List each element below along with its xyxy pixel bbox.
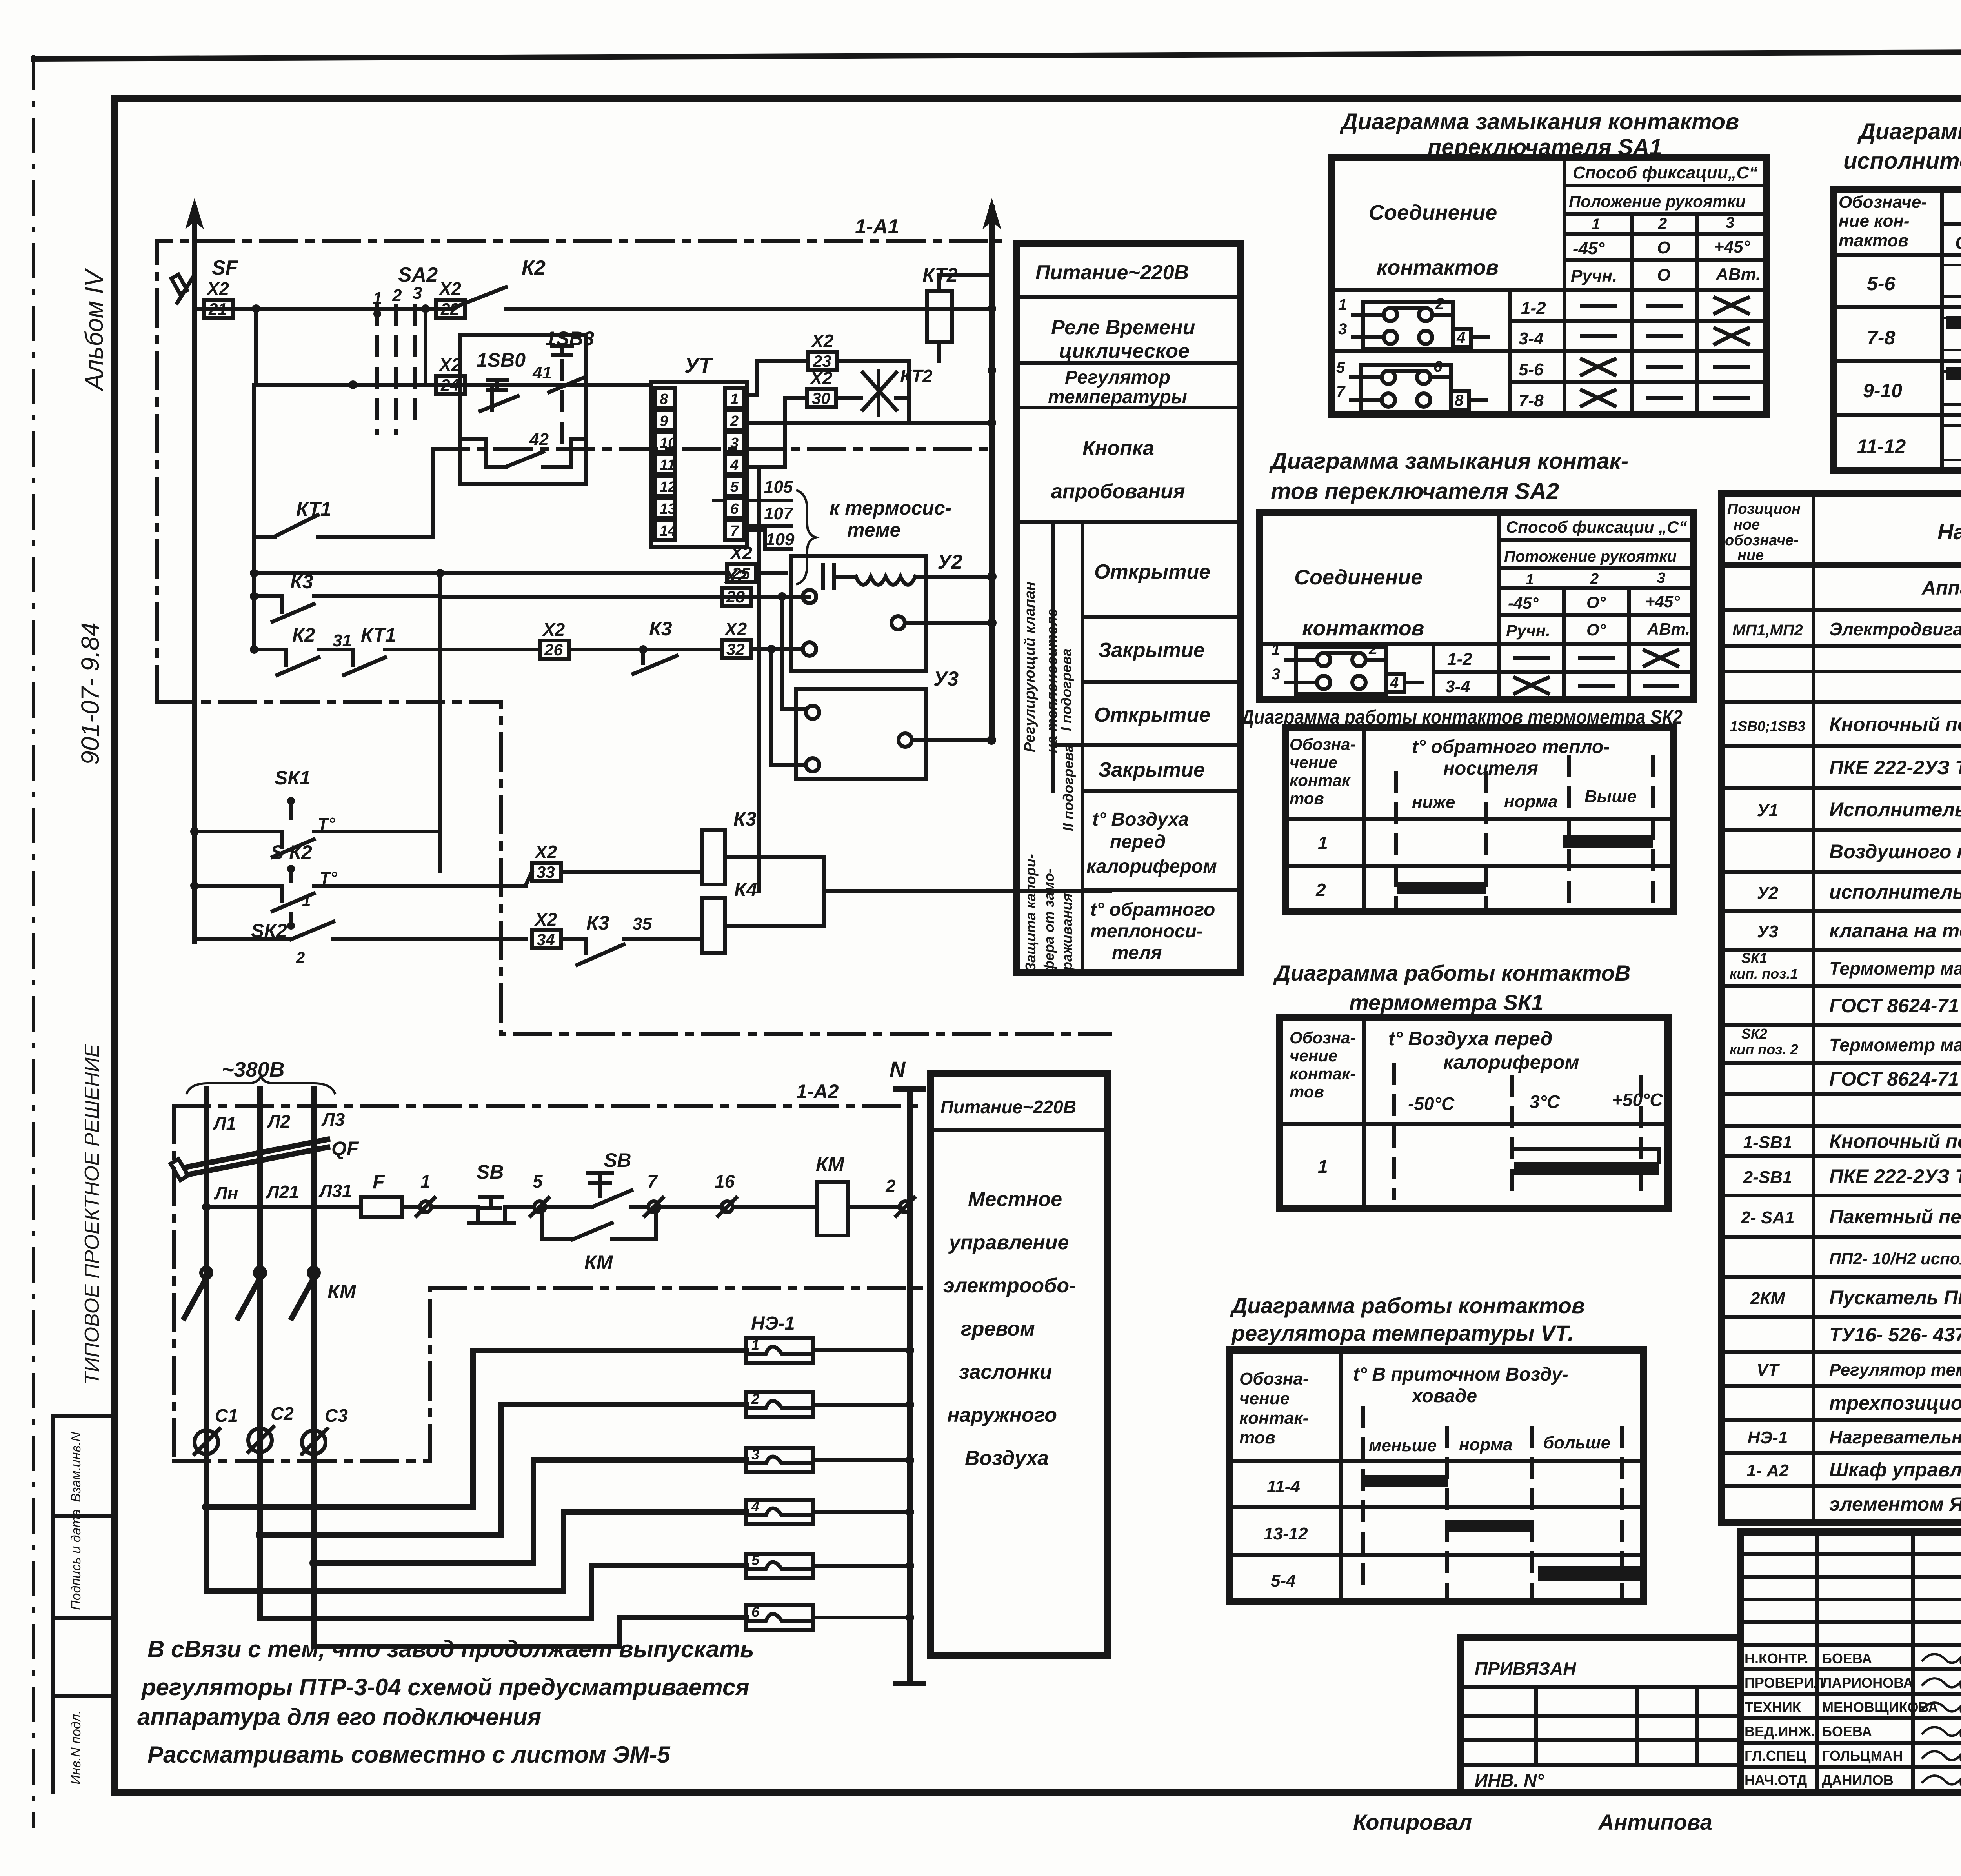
- svg-text:~380В: ~380В: [222, 1058, 285, 1081]
- svg-text:теля: теля: [1112, 943, 1162, 963]
- svg-text:ИНВ. N°: ИНВ. N°: [1475, 1770, 1544, 1790]
- svg-text:ПКЕ 222-2УЗ ТУ16-526.217-7: ПКЕ 222-2УЗ ТУ16-526.217-78: [1829, 757, 1961, 779]
- svg-text:Положение рукоятки: Положение рукоятки: [1569, 192, 1746, 211]
- svg-text:Шкаф управления нагревательн: Шкаф управления нагревательным: [1829, 1459, 1961, 1481]
- svg-text:1: 1: [730, 391, 739, 408]
- sheet edge dash-dot left: [32, 55, 35, 1828]
- svg-text:Инв.N подл.: Инв.N подл.: [69, 1710, 84, 1785]
- svg-text:раживания: раживания: [1059, 893, 1075, 971]
- terminal X2:24: [436, 355, 465, 394]
- svg-text:24: 24: [440, 376, 459, 394]
- svg-text:33: 33: [537, 863, 555, 881]
- heater element 1: [746, 1337, 914, 1363]
- title SK1 diagram: [1273, 961, 1630, 1015]
- svg-text:2: 2: [885, 1176, 896, 1196]
- svg-text:Копировал: Копировал: [1353, 1810, 1472, 1834]
- wire X2:23 right: [837, 361, 909, 423]
- svg-text:3: 3: [1657, 570, 1665, 586]
- svg-text:трехпозиционный тм-8: трехпозиционный тм-8: [1829, 1392, 1961, 1414]
- table cabinet rotated labels: [1022, 582, 1076, 973]
- wire heater feed 6: [314, 1618, 746, 1647]
- svg-text:2- SА1: 2- SА1: [1741, 1208, 1795, 1227]
- svg-text:1- А2: 1- А2: [1746, 1461, 1789, 1480]
- bars SK2: [1397, 835, 1653, 894]
- svg-text:КМ: КМ: [816, 1153, 845, 1175]
- svg-text:У1: У1: [1757, 801, 1778, 820]
- contact KT2 arrow: [836, 366, 933, 415]
- svg-text:К2: К2: [522, 257, 546, 279]
- wire drop X2:22: [424, 309, 427, 385]
- svg-text:Аппаратура по месту: Аппаратура по месту: [1921, 577, 1961, 599]
- svg-text:исполнительного механизма У1: исполнительного механизма У1: [1843, 148, 1961, 174]
- svg-text:КМ: КМ: [327, 1281, 357, 1303]
- svg-text:42: 42: [529, 430, 549, 449]
- svg-text:Термометр манометрический ТПГ: Термометр манометрический ТПГ- СК: [1829, 1035, 1961, 1055]
- svg-text:QF: QF: [331, 1137, 359, 1159]
- svg-text:t° В приточном Возду-: t° В приточном Возду-: [1353, 1364, 1568, 1385]
- svg-text:клапана на теплоносителе: клапана на теплоносителе: [1829, 920, 1961, 942]
- svg-text:32: 32: [726, 640, 745, 659]
- svg-text:контак-: контак-: [1290, 1064, 1355, 1083]
- svg-text:ГОСТ 8624-71: ГОСТ 8624-71: [1829, 1068, 1959, 1090]
- fuse F: [360, 1171, 418, 1217]
- svg-text:контактов: контактов: [1302, 617, 1424, 640]
- svg-text:9-10: 9-10: [1863, 380, 1902, 402]
- svg-text:больше: больше: [1543, 1433, 1610, 1452]
- relay coil KT2: [922, 264, 996, 361]
- svg-text:Питание~220В: Питание~220В: [1035, 261, 1189, 284]
- svg-text:К3: К3: [733, 808, 757, 830]
- svg-text:температуры: температуры: [1048, 387, 1187, 408]
- svg-text:11-4: 11-4: [1267, 1477, 1300, 1496]
- svg-text:5-6: 5-6: [1519, 360, 1544, 379]
- title SA1 diagram: [1339, 109, 1739, 160]
- svg-text:13: 13: [660, 501, 676, 517]
- svg-text:2: 2: [1658, 215, 1667, 232]
- svg-text:4: 4: [751, 1498, 759, 1514]
- parts row U3: [1757, 920, 1961, 942]
- switch SA2 dashed stems: [373, 264, 438, 433]
- table SK2 texts: [1290, 735, 1637, 900]
- svg-text:F: F: [373, 1171, 385, 1193]
- svg-text:Х2: Х2: [542, 619, 565, 640]
- element C3: [302, 1405, 348, 1454]
- coil KM: [816, 1153, 898, 1236]
- parts row SK2: [1730, 1026, 1798, 1057]
- svg-text:БОЕВА: БОЕВА: [1822, 1723, 1872, 1740]
- phase L1: [206, 1089, 238, 1591]
- svg-text:Лн: Лн: [214, 1183, 238, 1203]
- svg-text:К4: К4: [734, 879, 757, 901]
- svg-text:чение: чение: [1239, 1389, 1290, 1408]
- svg-text:1-А1: 1-А1: [855, 215, 899, 238]
- svg-text:тов: тов: [1239, 1428, 1275, 1447]
- wire X2:32 to U3: [751, 645, 803, 653]
- parts row U1: [1757, 799, 1961, 821]
- svg-text:4: 4: [1456, 329, 1465, 346]
- wire risers right of coils: [824, 857, 1110, 926]
- heater element 4: [746, 1498, 914, 1524]
- svg-text:1: 1: [1592, 216, 1600, 233]
- svg-text:3: 3: [1338, 320, 1347, 338]
- contact K2: [451, 257, 546, 309]
- svg-text:107: 107: [764, 504, 794, 523]
- svg-text:Альбом IV: Альбом IV: [80, 268, 108, 392]
- svg-text:1-2: 1-2: [1447, 650, 1472, 669]
- connector SA2: [1272, 640, 1422, 694]
- relay coil K4: [702, 879, 824, 953]
- pin 1: [725, 388, 744, 408]
- svg-text:контактов: контактов: [1377, 256, 1499, 279]
- note text: [137, 1636, 754, 1768]
- svg-text:электрообо-: электрообо-: [943, 1274, 1076, 1297]
- wire 109: [744, 530, 795, 549]
- svg-text:Нагревательный элемент N=1,6: Нагревательный элемент N=1,6 кВт: [1829, 1427, 1961, 1447]
- svg-text:SК1: SК1: [1741, 950, 1767, 966]
- contact K3 second: [633, 618, 720, 674]
- svg-text:SК2: SК2: [1741, 1026, 1767, 1042]
- svg-text:Х2: Х2: [724, 619, 747, 639]
- terminal X2:22: [436, 278, 465, 318]
- svg-text:ГЛ.СПЕЦ: ГЛ.СПЕЦ: [1745, 1748, 1806, 1764]
- button 1SB0 contact: [480, 380, 518, 411]
- svg-text:2: 2: [392, 286, 402, 305]
- svg-text:1: 1: [1272, 641, 1280, 659]
- relay coil K3: [702, 808, 824, 884]
- svg-text:S К2: S К2: [271, 841, 312, 863]
- svg-text:1: 1: [420, 1171, 431, 1192]
- svg-text:Л1: Л1: [213, 1113, 236, 1134]
- svg-text:калорифером: калорифером: [1086, 856, 1217, 877]
- table SK1 texts: [1290, 1028, 1663, 1177]
- svg-text:ТУ16- 526- 437-78: ТУ16- 526- 437-78: [1829, 1324, 1961, 1346]
- svg-text:1SВ0;1SВ3: 1SВ0;1SВ3: [1730, 718, 1805, 734]
- svg-text:7: 7: [1336, 383, 1346, 400]
- svg-text:чение: чение: [1290, 753, 1337, 772]
- wire vertical 1936: [747, 467, 759, 891]
- svg-text:Местное: Местное: [968, 1188, 1062, 1211]
- svg-text:Соединение: Соединение: [1294, 566, 1423, 589]
- parts row element YaU: [1829, 1493, 1961, 1515]
- svg-text:2-SВ1: 2-SВ1: [1743, 1168, 1792, 1187]
- svg-text:Регулирующий клапан: Регулирующий клапан: [1022, 582, 1038, 752]
- terminal X2:33: [532, 842, 561, 881]
- svg-text:7-8: 7-8: [1867, 327, 1895, 349]
- svg-text:Пакетный переключатель: Пакетный переключатель: [1829, 1206, 1961, 1228]
- svg-text:апробования: апробования: [1051, 480, 1185, 503]
- table U1 diagram: [1834, 189, 1961, 470]
- margin text Album IV: [80, 268, 108, 392]
- marks SA2: [1515, 650, 1677, 693]
- svg-text:Кнопочный пост управления: Кнопочный пост управления: [1829, 713, 1961, 735]
- table SA1 diagram: [1332, 158, 1766, 414]
- wire control row: [202, 1203, 360, 1211]
- contact KT1: [254, 449, 433, 537]
- svg-text:Открытие: Открытие: [1094, 704, 1210, 726]
- svg-text:тактов: тактов: [1839, 231, 1908, 250]
- svg-text:О: О: [1657, 238, 1670, 257]
- svg-text:13-12: 13-12: [1264, 1524, 1308, 1543]
- svg-text:N: N: [890, 1057, 906, 1081]
- contact KM L2: [238, 1268, 265, 1318]
- terminal X2:23: [808, 331, 837, 370]
- svg-text:ЛАРИОНОВА: ЛАРИОНОВА: [1822, 1675, 1913, 1691]
- wire row 1574 to X2:28: [440, 595, 809, 599]
- cabinet 1-A1 inner dash-dot: [433, 447, 992, 451]
- terminal 2: [885, 1176, 914, 1216]
- svg-text:теме: теме: [847, 519, 900, 541]
- parts row SK1: [1730, 950, 1798, 982]
- parts list table: [1722, 493, 1961, 1522]
- riser wire right: [982, 198, 1001, 745]
- svg-text:ТИПОВОЕ ПРОЕКТНОЕ РЕШЕНИЕ: ТИПОВОЕ ПРОЕКТНОЕ РЕШЕНИЕ: [81, 1043, 104, 1385]
- svg-text:7: 7: [647, 1171, 658, 1192]
- svg-text:-45°: -45°: [1573, 239, 1605, 258]
- svg-text:термометра SК1: термометра SК1: [1349, 990, 1544, 1015]
- svg-text:1-SВ1: 1-SВ1: [1743, 1133, 1792, 1152]
- heater element 5: [746, 1552, 914, 1578]
- svg-text:заслонки: заслонки: [959, 1361, 1052, 1383]
- svg-text:+50°С: +50°С: [1612, 1090, 1663, 1110]
- svg-text:АВт.: АВт.: [1647, 620, 1690, 638]
- pin 13: [655, 498, 676, 518]
- svg-text:Защита калори-: Защита калори-: [1022, 854, 1039, 972]
- wire bus B: [256, 309, 651, 389]
- svg-text:управление: управление: [948, 1231, 1069, 1254]
- svg-text:I подогрева: I подогрева: [1058, 648, 1074, 731]
- pin 4: [725, 454, 744, 474]
- svg-text:4: 4: [1390, 674, 1399, 691]
- svg-text:норма: норма: [1504, 792, 1558, 811]
- svg-text:КМ: КМ: [584, 1251, 613, 1273]
- title block frame: [1740, 1532, 1961, 1792]
- svg-text:SВ: SВ: [604, 1149, 631, 1171]
- label 380V with brace: [186, 1058, 335, 1094]
- contact KM selfhold: [542, 1207, 656, 1273]
- svg-text:к термосис-: к термосис-: [830, 497, 951, 519]
- svg-text:К3: К3: [586, 912, 609, 934]
- contact K2 31 KT1 row: [250, 624, 538, 675]
- parts row apparatus by place: [1921, 577, 1961, 599]
- svg-text:21: 21: [208, 300, 227, 318]
- contact K3 35: [561, 912, 702, 965]
- svg-text:носителя: носителя: [1443, 758, 1538, 779]
- svg-text:Х2: Х2: [438, 278, 462, 299]
- sheet top edge line: [33, 50, 1961, 59]
- contact K3: [250, 571, 440, 832]
- svg-text:МЕНОВЩИКОВА: МЕНОВЩИКОВА: [1822, 1699, 1938, 1715]
- svg-text:5: 5: [751, 1552, 760, 1568]
- svg-text:3: 3: [730, 435, 739, 451]
- svg-text:аппаратура для его подключен: аппаратура для его подключения: [137, 1704, 541, 1730]
- svg-text:Потожение рукоятки: Потожение рукоятки: [1504, 548, 1677, 565]
- svg-text:КТ2: КТ2: [900, 366, 933, 386]
- svg-text:Закрытие: Закрытие: [1098, 639, 1205, 662]
- text kopiroval: [1353, 1810, 1712, 1834]
- svg-text:О°: О°: [1586, 620, 1606, 639]
- svg-text:регулятора температуры VТ.: регулятора температуры VТ.: [1231, 1321, 1574, 1345]
- svg-text:Наименование: Наименование: [1937, 519, 1961, 544]
- svg-text:2: 2: [1435, 295, 1444, 313]
- svg-text:Обозна-: Обозна-: [1290, 1028, 1355, 1047]
- svg-text:II подогрева: II подогрева: [1060, 744, 1076, 831]
- table cabinet functions texts: [1035, 261, 1217, 963]
- pin 5: [725, 476, 744, 496]
- pin 3: [725, 432, 744, 452]
- parts row 2-SB1: [1743, 1165, 1961, 1187]
- svg-text:ховаде: ховаде: [1411, 1386, 1477, 1407]
- svg-text:Взам.инв.N: Взам.инв.N: [69, 1432, 84, 1502]
- pin 10: [655, 432, 676, 452]
- svg-text:5: 5: [533, 1171, 543, 1192]
- svg-text:Диаграмма работы контактов: Диаграмма работы контактов: [1230, 1293, 1585, 1318]
- cabinet 1-A1 boundary: [157, 215, 1110, 1034]
- svg-text:4: 4: [730, 457, 739, 473]
- svg-text:26: 26: [544, 640, 563, 659]
- svg-text:Открыто: Открыто: [1955, 233, 1961, 253]
- svg-text:Регулятор температуры полупров: Регулятор температуры полупроводникавый: [1829, 1360, 1961, 1379]
- svg-text:7: 7: [730, 523, 739, 539]
- svg-text:Воздуха: Воздуха: [965, 1447, 1049, 1470]
- svg-text:28: 28: [726, 588, 745, 606]
- svg-text:АВт.: АВт.: [1715, 265, 1761, 284]
- svg-text:Рассматривать совместно с л: Рассматривать совместно с листом ЭМ-5: [147, 1741, 671, 1768]
- svg-text:Регулятор: Регулятор: [1065, 367, 1170, 388]
- pin 14: [655, 520, 676, 540]
- cabinet 1-A2 boundary: [174, 1081, 931, 1461]
- contact KM L3: [292, 1268, 357, 1318]
- svg-text:2: 2: [1368, 640, 1377, 658]
- svg-text:Воздушного клапана: Воздушного клапана: [1829, 841, 1961, 862]
- svg-text:МП1,МП2: МП1,МП2: [1732, 622, 1803, 639]
- wire heater feed 1: [202, 1350, 746, 1511]
- parts row PKE 222: [1829, 757, 1961, 779]
- button SB stop: [469, 1161, 531, 1223]
- svg-text:Н.КОНТР.: Н.КОНТР.: [1745, 1650, 1808, 1667]
- wire 107: [744, 504, 794, 526]
- svg-text:Диаграмма замыкания контакто: Диаграмма замыкания контактов: [1339, 109, 1739, 135]
- svg-text:1: 1: [1338, 296, 1347, 313]
- svg-text:5: 5: [1336, 359, 1345, 376]
- svg-text:Термометр манометрический ТПГ: Термометр манометрический ТПГ-СК: [1829, 958, 1961, 979]
- connector SA1 upper: [1338, 295, 1488, 349]
- parts row 1-SB1: [1743, 1130, 1961, 1152]
- svg-text:1: 1: [751, 1337, 759, 1353]
- parts row 1SB0 1SB3: [1730, 713, 1961, 735]
- title block signature rows: [1745, 1650, 1961, 1788]
- svg-text:5-6: 5-6: [1867, 273, 1896, 295]
- margin stamp column: [53, 1416, 115, 1792]
- wire X2:33 to K3 coil: [526, 872, 702, 886]
- svg-text:С3: С3: [325, 1405, 348, 1426]
- parts row GOST1: [1829, 995, 1961, 1017]
- svg-text:УТ: УТ: [684, 354, 713, 377]
- svg-text:1-2: 1-2: [1521, 298, 1546, 318]
- svg-text:901-07- 9.84: 901-07- 9.84: [76, 622, 104, 765]
- parts row NE-1: [1748, 1427, 1961, 1448]
- regulator VT block: [651, 354, 747, 547]
- svg-text:34: 34: [537, 930, 555, 949]
- marks SA1: [1582, 298, 1748, 406]
- wire X2:26 onward: [569, 645, 702, 654]
- terminal X2:28: [722, 566, 751, 606]
- parts row 1-A2: [1746, 1459, 1961, 1481]
- svg-text:калорифером: калорифером: [1443, 1051, 1579, 1073]
- thermometer contact SK2 lower: [195, 914, 526, 966]
- svg-text:Л21: Л21: [266, 1182, 299, 1202]
- svg-text:Обозна-: Обозна-: [1239, 1369, 1309, 1388]
- svg-text:Х2: Х2: [809, 368, 833, 388]
- button station 1SB0 1SB3: [460, 328, 594, 484]
- svg-text:ПКЕ 222-2УЗ ТУ 16. 526. 21: ПКЕ 222-2УЗ ТУ 16. 526. 217-78: [1829, 1165, 1961, 1187]
- parts row U2: [1757, 881, 1961, 903]
- svg-text:К3: К3: [290, 571, 313, 593]
- terminal X2:25: [727, 543, 756, 582]
- heater element 3: [746, 1447, 914, 1472]
- svg-text:ГОСТ 8624-71: ГОСТ 8624-71: [1829, 995, 1959, 1017]
- terminal X2:26: [540, 619, 569, 659]
- wire X2:25 to U2: [756, 571, 786, 575]
- svg-text:2: 2: [751, 1391, 759, 1407]
- table local control: [931, 1074, 1108, 1655]
- table SA2 texts: [1294, 518, 1690, 696]
- svg-text:Открытие: Открытие: [1094, 560, 1210, 583]
- svg-text:SВ: SВ: [477, 1161, 504, 1183]
- svg-text:SA2: SA2: [398, 264, 438, 286]
- heater element 6: [746, 1604, 914, 1630]
- terminal 5: [531, 1171, 592, 1216]
- svg-text:перед: перед: [1110, 832, 1166, 852]
- svg-text:Исполнительный механизм: Исполнительный механизм: [1829, 799, 1961, 821]
- button 1SB3 contact: [549, 346, 584, 455]
- svg-text:НЭ-1: НЭ-1: [1748, 1428, 1788, 1447]
- svg-text:3-4: 3-4: [1445, 677, 1470, 696]
- svg-text:ние кон-: ние кон-: [1839, 211, 1910, 231]
- svg-text:Х2: Х2: [534, 909, 557, 930]
- svg-text:5: 5: [730, 479, 739, 495]
- svg-text:Т°: Т°: [318, 814, 335, 833]
- parts table header texts: [1725, 501, 1961, 564]
- pin 9: [655, 410, 675, 430]
- vertical feeder left: [252, 385, 256, 650]
- title U1 diagram: [1843, 119, 1961, 174]
- parts row VT: [1757, 1360, 1961, 1379]
- svg-text:кип. поз.1: кип. поз.1: [1730, 966, 1798, 982]
- svg-text:SF: SF: [212, 257, 238, 279]
- svg-text:кип поз. 2: кип поз. 2: [1730, 1041, 1798, 1057]
- svg-text:Х2: Х2: [810, 331, 834, 351]
- svg-text:11: 11: [660, 457, 675, 473]
- svg-text:норма: норма: [1459, 1435, 1513, 1454]
- pin 11: [655, 454, 675, 474]
- phase L2: [260, 1089, 299, 1619]
- table VT texts: [1239, 1364, 1610, 1590]
- svg-text:НАЧ.ОТД: НАЧ.ОТД: [1745, 1772, 1807, 1788]
- svg-text:циклическое: циклическое: [1059, 340, 1190, 362]
- svg-text:35: 35: [633, 914, 652, 933]
- svg-text:Х2: Х2: [724, 566, 747, 587]
- svg-text:105: 105: [764, 477, 793, 497]
- svg-text:1: 1: [1526, 571, 1534, 588]
- svg-text:НЭ-1: НЭ-1: [751, 1313, 795, 1334]
- svg-text:-45°: -45°: [1508, 594, 1539, 612]
- actuator U2: [791, 551, 991, 671]
- svg-text:2: 2: [730, 413, 739, 429]
- pin 2: [725, 410, 744, 430]
- wire heater feed 5: [260, 1566, 746, 1619]
- table privyazan: [1460, 1638, 1740, 1792]
- svg-text:Позицион: Позицион: [1727, 501, 1801, 517]
